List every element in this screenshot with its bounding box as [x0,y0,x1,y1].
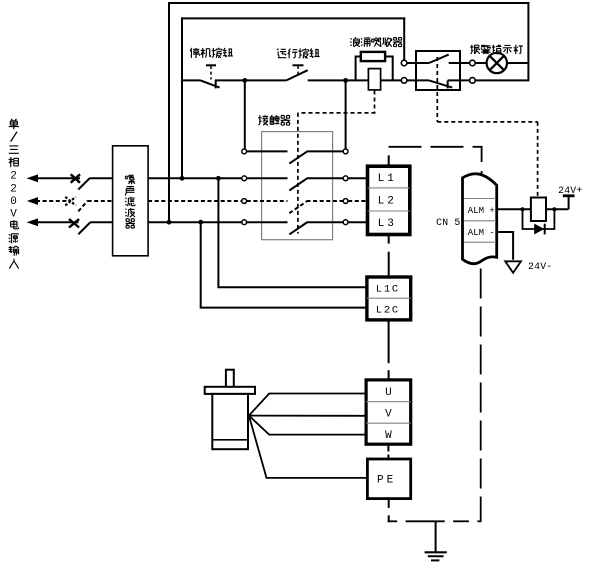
diode D1 [534,224,545,235]
contactor auxiliary contact (seal-in) [242,149,348,164]
wire inner top bus (to alarm relay NO contact) [181,17,405,179]
dashed mechanical link coil-to-contacts [298,91,376,234]
motor M shaft [226,370,234,388]
wire W box link to PE box [387,444,389,459]
wire phase L1 filter to contactor [148,177,242,179]
drive enclosure boundary chain line (right) [480,269,482,522]
24V+ terminal [563,196,575,209]
noise filter box Z1 [113,146,149,256]
label surge absorber 浪涌吸收器 [350,37,402,47]
phase L3 input arrow [27,218,79,226]
wire motor to U [249,394,366,416]
wire aux contact branch right [345,80,347,149]
svg-text:CN 5: CN 5 [436,217,460,228]
svg-text:24V+: 24V+ [558,185,582,196]
terminal PE [367,459,410,499]
svg-text:V: V [10,209,17,221]
svg-text:0: 0 [10,196,17,208]
terminal block L1C L2C [367,277,411,320]
pushbutton SB2 run (NO) [286,65,307,80]
svg-text:L2: L2 [378,195,397,207]
wire L2C box link to UVW box [388,320,390,380]
junction node phase L1 / control tap [180,176,185,181]
label power input 单/三相220V电源输入 (vertical) [9,119,19,269]
wire L1 box top lead [388,155,390,166]
junction node phase L3 / L2C feeder [198,220,203,225]
svg-text:ALM +: ALM + [468,206,495,216]
wire L3 box bottom link to L1C box [388,235,390,277]
phase L1 input arrow [27,174,81,182]
terminal block L1 L2 L3 [368,166,410,234]
wire motor to W [249,416,366,435]
contactor main contact phase L3 [242,220,368,235]
relay NC contact (contactor coil circuit) [401,78,475,89]
pushbutton SB1 stop (NC) [201,65,220,88]
surge absorber RV1 (varistor) loop [356,52,393,81]
flyback diode loop [523,209,555,229]
wire motor to V [249,415,366,417]
svg-text:V: V [385,409,392,421]
ground symbol [425,552,447,560]
wire ground tap [435,521,437,551]
drive enclosure boundary chain line (top) [389,147,483,178]
wire main control line y=80.4 [182,79,402,81]
phase L2 input arrow (dashed) [27,197,67,205]
wire PE box bottom link to boundary [388,499,390,523]
drive enclosure boundary chain line (bottom) [388,520,482,522]
junction node main-line / aux-contact right [343,78,348,83]
motor M body [212,394,248,449]
svg-text:L1: L1 [378,173,397,185]
svg-text:PE: PE [377,475,396,487]
fuse X mark phase L3 [69,219,79,227]
fuse X mark phase L2 [65,197,75,206]
wire phase L2 filter to contactor (dashed) [148,200,242,202]
junction node phase L3 / control tap [167,220,172,225]
svg-text:U: U [385,387,392,399]
wire feeder to L2C [201,222,367,307]
terminal block U V W [366,380,411,444]
motor M flange [205,387,255,394]
disconnect blade phase L1 [78,178,112,190]
contactor main contact phase L2 (dashed) [242,199,368,214]
wire relay NC contact to right bus [475,79,527,81]
junction node main-line / aux-contact left [242,78,247,83]
relay NO contact (to lamp) [401,55,475,66]
alarm relay contact box KA [416,51,460,90]
junction node phase L1 / L1C feeder [216,176,221,181]
wire outer top bus (lamp circuit) [168,2,529,223]
svg-text:24V-: 24V- [528,261,552,272]
label stop button 停机按钮 [190,48,233,58]
label run button 运行按钮 [277,48,320,58]
disconnect blade phase L2 (dashed) [78,201,112,212]
svg-text:L3: L3 [378,218,397,230]
label noise filter 噪声滤波器 (vertical) [125,175,135,228]
dashed link relay contacts to relay coil [437,57,537,197]
label alarm lamp 报警指示灯 [470,45,523,55]
wire motor to PE [249,416,368,478]
label contactor 接触器 [258,115,290,125]
svg-text:ALM -: ALM - [468,228,495,238]
svg-text:2: 2 [10,183,17,195]
wire feeder to L1C [218,178,367,287]
wire phase L3 filter to contactor [148,221,242,223]
contactor coil KM [368,69,380,90]
24V- arrow terminal [505,261,521,273]
junction node diode right [552,207,556,211]
connector CN5 body [463,174,497,264]
svg-text:L2C: L2C [376,305,400,317]
wire ALM- to 24V- [498,232,514,260]
svg-text:2: 2 [10,171,17,183]
svg-text:W: W [385,430,392,442]
contactor box KM main contacts [262,132,333,240]
wire aux contact branch left [244,80,246,149]
svg-text:L1C: L1C [376,283,400,295]
fuse X mark phase L1 [71,174,80,182]
alarm relay coil KA [531,198,546,222]
disconnect blade phase L3 [78,222,112,234]
alarm indicator lamp HL [475,53,528,73]
wire ALM+ line to 24V+ [498,208,569,210]
contactor main contact phase L1 [242,176,368,191]
junction node diode left [521,207,525,211]
